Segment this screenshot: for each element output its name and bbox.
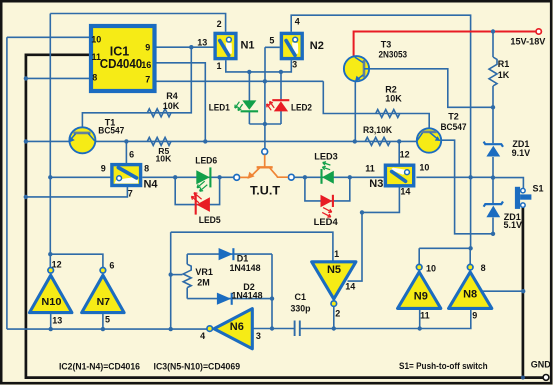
svg-text:LED1: LED1 bbox=[209, 102, 230, 112]
svg-text:N1: N1 bbox=[240, 40, 254, 52]
svg-text:8: 8 bbox=[92, 73, 97, 83]
svg-text:6: 6 bbox=[129, 150, 134, 160]
svg-text:C1: C1 bbox=[295, 292, 307, 302]
svg-text:VR1: VR1 bbox=[195, 267, 213, 277]
svg-text:2: 2 bbox=[335, 308, 340, 318]
svg-text:S1= Push-to-off switch: S1= Push-to-off switch bbox=[399, 361, 488, 371]
svg-text:14: 14 bbox=[400, 186, 410, 196]
svg-text:2N3053: 2N3053 bbox=[379, 49, 408, 59]
svg-text:10K: 10K bbox=[156, 153, 173, 163]
svg-text:4: 4 bbox=[200, 331, 205, 341]
svg-text:LED6: LED6 bbox=[195, 155, 217, 165]
svg-text:8: 8 bbox=[144, 164, 149, 174]
svg-text:12: 12 bbox=[400, 149, 410, 159]
svg-text:1: 1 bbox=[334, 249, 339, 259]
svg-text:4: 4 bbox=[295, 17, 300, 27]
svg-text:BC547: BC547 bbox=[98, 126, 124, 136]
svg-text:BC547: BC547 bbox=[441, 122, 467, 132]
svg-text:N3: N3 bbox=[369, 178, 383, 190]
svg-text:LED4: LED4 bbox=[314, 217, 338, 227]
svg-text:1K: 1K bbox=[498, 70, 510, 80]
svg-text:9: 9 bbox=[145, 43, 150, 53]
svg-text:5.1V: 5.1V bbox=[503, 220, 522, 230]
svg-text:LED3: LED3 bbox=[314, 151, 338, 161]
svg-text:N2: N2 bbox=[310, 40, 324, 52]
svg-text:10K: 10K bbox=[385, 94, 402, 104]
svg-text:10: 10 bbox=[426, 264, 436, 274]
svg-text:1N4148: 1N4148 bbox=[232, 291, 263, 301]
svg-text:3: 3 bbox=[292, 59, 297, 69]
svg-text:10K: 10K bbox=[163, 101, 180, 111]
svg-text:N7: N7 bbox=[97, 296, 111, 308]
svg-text:330p: 330p bbox=[291, 304, 311, 314]
svg-text:GND: GND bbox=[531, 359, 551, 369]
svg-text:11: 11 bbox=[365, 163, 375, 173]
svg-text:N6: N6 bbox=[230, 321, 244, 333]
svg-text:6: 6 bbox=[109, 260, 114, 270]
svg-text:R1: R1 bbox=[498, 59, 510, 69]
svg-text:N5: N5 bbox=[327, 264, 341, 276]
svg-text:15V-18V: 15V-18V bbox=[510, 37, 546, 47]
svg-text:N8: N8 bbox=[463, 289, 477, 301]
svg-text:2: 2 bbox=[217, 19, 222, 29]
svg-text:R3,10K: R3,10K bbox=[363, 125, 392, 135]
svg-text:7: 7 bbox=[145, 75, 150, 85]
svg-text:1N4148: 1N4148 bbox=[230, 263, 261, 273]
svg-text:IC2(N1-N4)=CD4016: IC2(N1-N4)=CD4016 bbox=[59, 361, 140, 371]
svg-text:T2: T2 bbox=[448, 111, 459, 121]
svg-text:1: 1 bbox=[216, 61, 221, 71]
svg-text:9: 9 bbox=[472, 311, 477, 321]
svg-text:5: 5 bbox=[269, 36, 274, 46]
svg-text:CD4040: CD4040 bbox=[100, 57, 143, 71]
svg-text:LED5: LED5 bbox=[199, 215, 221, 225]
svg-text:9.1V: 9.1V bbox=[512, 148, 531, 158]
svg-text:13: 13 bbox=[52, 315, 62, 325]
svg-text:T.U.T: T.U.T bbox=[250, 183, 281, 197]
svg-text:IC3(N5-N10)=CD4069: IC3(N5-N10)=CD4069 bbox=[154, 361, 241, 371]
svg-text:10: 10 bbox=[419, 163, 429, 173]
svg-text:N4: N4 bbox=[143, 178, 158, 190]
svg-text:8: 8 bbox=[481, 263, 486, 273]
svg-text:LED2: LED2 bbox=[291, 102, 312, 112]
svg-text:N9: N9 bbox=[414, 291, 428, 303]
svg-text:T3: T3 bbox=[381, 39, 392, 49]
svg-text:12: 12 bbox=[52, 259, 62, 269]
svg-text:16: 16 bbox=[141, 60, 151, 70]
svg-text:2M: 2M bbox=[197, 278, 210, 288]
svg-text:7: 7 bbox=[128, 188, 133, 198]
svg-text:N10: N10 bbox=[41, 296, 61, 308]
svg-text:14: 14 bbox=[345, 281, 355, 291]
svg-text:3: 3 bbox=[256, 331, 261, 341]
svg-text:9: 9 bbox=[101, 164, 106, 174]
svg-text:D1: D1 bbox=[237, 253, 249, 263]
svg-text:R4: R4 bbox=[166, 91, 178, 101]
svg-text:11: 11 bbox=[420, 310, 430, 320]
svg-text:5: 5 bbox=[105, 314, 110, 324]
svg-text:S1: S1 bbox=[532, 183, 543, 193]
svg-text:13: 13 bbox=[197, 38, 207, 48]
svg-text:10: 10 bbox=[91, 34, 101, 44]
